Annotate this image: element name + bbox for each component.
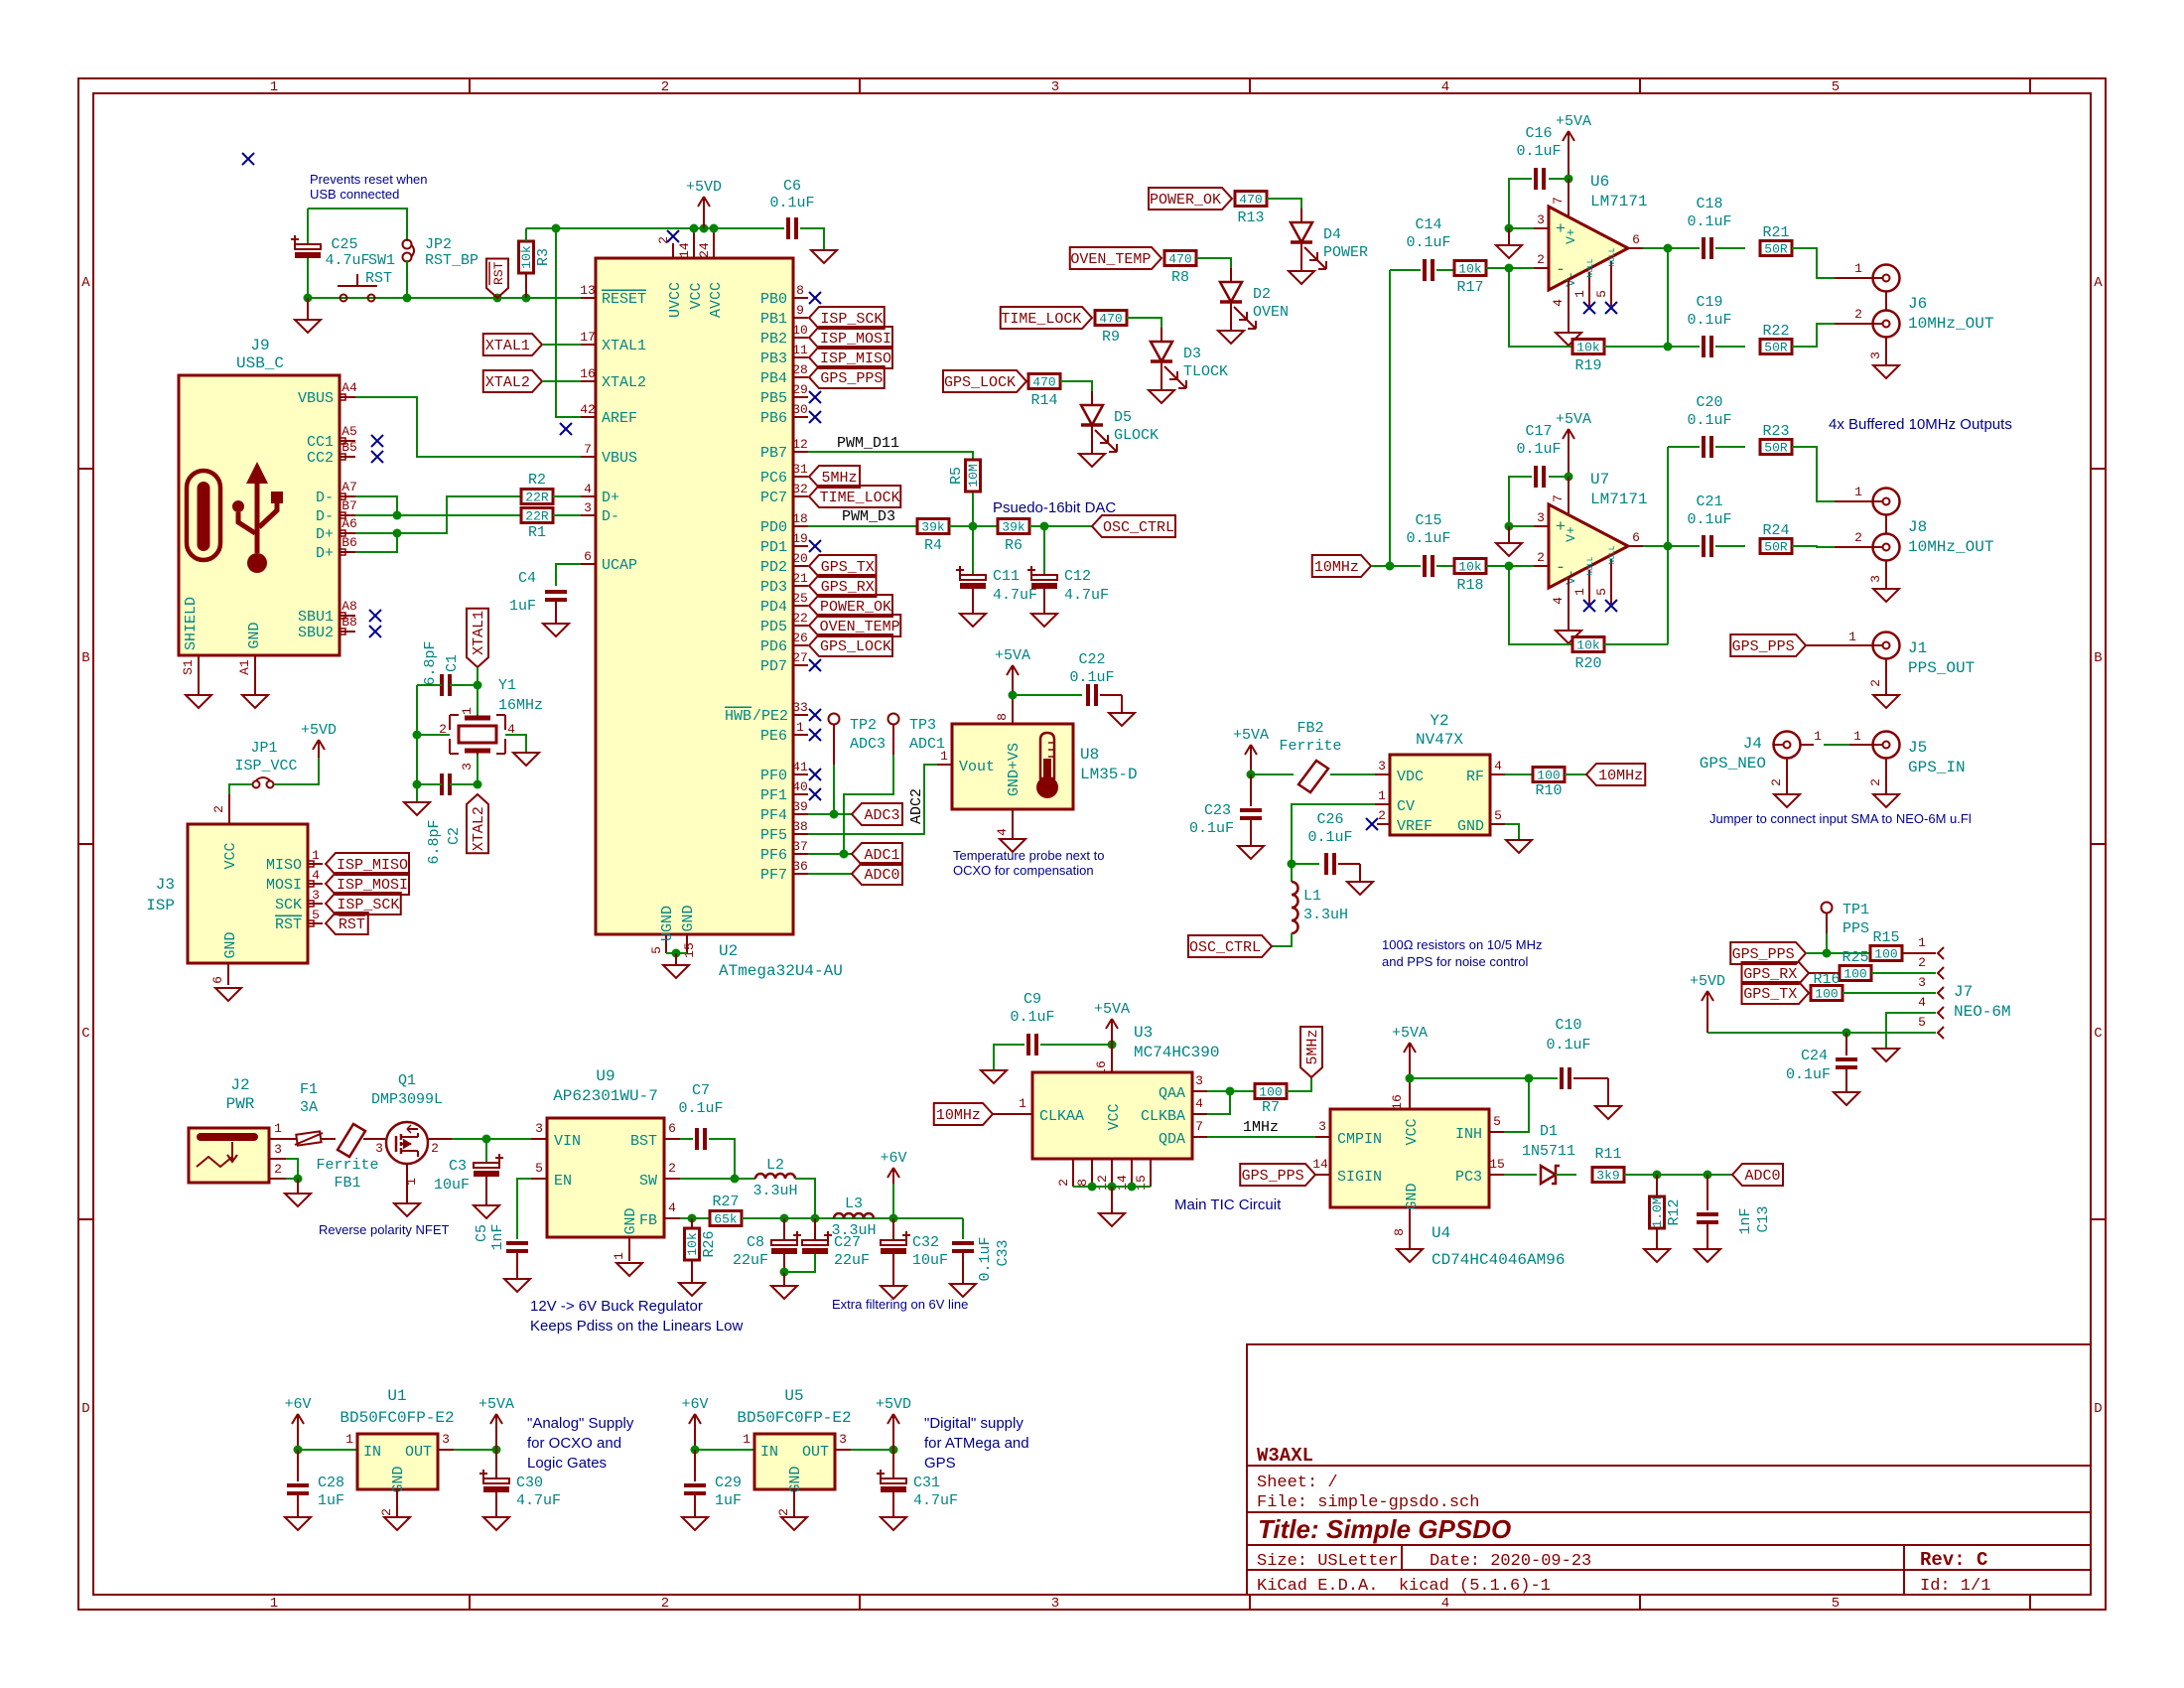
capacitor C4 <box>545 592 567 600</box>
svg-text:4: 4 <box>584 482 592 496</box>
svg-text:10k: 10k <box>519 245 534 269</box>
svg-text:10k: 10k <box>1576 341 1600 355</box>
svg-text:PWR: PWR <box>226 1095 255 1113</box>
global label RST at J3 <box>326 913 368 934</box>
ground at C9 <box>981 1070 1007 1083</box>
svg-text:ISP_VCC: ISP_VCC <box>234 758 297 774</box>
pin 6 UCAP of U2 <box>581 563 596 565</box>
wire C20 to R23 <box>1715 446 1745 448</box>
svg-text:37: 37 <box>792 839 808 854</box>
ground at C24 <box>1834 1092 1859 1105</box>
pin A6 D+ of J9 <box>340 532 355 534</box>
svg-text:EN: EN <box>554 1173 572 1190</box>
svg-text:16: 16 <box>1390 1094 1405 1110</box>
svg-text:Rev: C: Rev: C <box>1920 1549 1987 1571</box>
svg-text:XTAL1: XTAL1 <box>471 611 487 655</box>
svg-text:36: 36 <box>792 859 808 874</box>
svg-text:8: 8 <box>995 713 1010 721</box>
capacitor C10 <box>1562 1067 1570 1089</box>
wire D- B7 to R1 <box>355 514 521 516</box>
svg-text:16MHz: 16MHz <box>498 697 543 714</box>
ground at C8 <box>771 1286 797 1299</box>
svg-text:0.1uF: 0.1uF <box>977 1236 994 1281</box>
pin 38 PF5 of U2 <box>793 833 808 835</box>
wire ADC1 <box>808 853 852 855</box>
pin 30 PB6 of U2 <box>793 416 808 418</box>
pin 2 (-) of U7 <box>1534 565 1549 567</box>
svg-text:ADC3: ADC3 <box>864 807 899 824</box>
svg-text:14: 14 <box>1312 1157 1328 1172</box>
svg-text:R7: R7 <box>1262 1099 1280 1116</box>
global label ADC0 at U4 <box>1732 1164 1783 1186</box>
capacitor C32 10uF <box>892 1218 894 1239</box>
capacitor C1 <box>442 674 450 696</box>
pin 1 Vout of U8 <box>937 764 952 766</box>
junction INH/C10 <box>1525 1074 1534 1083</box>
junction JP2/reset <box>403 294 412 303</box>
svg-text:PB4: PB4 <box>760 370 787 387</box>
ground at C32 <box>881 1286 906 1299</box>
svg-text:A: A <box>2094 275 2103 291</box>
junction pin3 U7 <box>1505 522 1514 531</box>
wire to C20 <box>1668 446 1700 448</box>
wire UCAP to C4 <box>556 564 581 586</box>
svg-text:39k: 39k <box>1002 520 1025 535</box>
svg-text:3: 3 <box>375 1141 383 1156</box>
svg-text:100: 100 <box>1815 987 1838 1002</box>
svg-text:C4: C4 <box>518 570 536 587</box>
svg-text:Title: Simple GPSDO: Title: Simple GPSDO <box>1258 1514 1511 1544</box>
svg-text:PF1: PF1 <box>760 787 787 804</box>
svg-text:Logic Gates: Logic Gates <box>527 1455 607 1472</box>
pin 26 PD6 of U2 <box>793 644 808 646</box>
polarized capacitor C30 <box>483 1478 509 1483</box>
svg-text:R19: R19 <box>1574 357 1601 374</box>
pin 10 PB2 of U2 <box>793 337 808 339</box>
svg-text:SW1: SW1 <box>368 252 395 269</box>
junction C8/C27 gnd <box>780 1268 789 1277</box>
svg-text:8: 8 <box>1392 1228 1407 1236</box>
svg-text:PB6: PB6 <box>760 410 787 427</box>
junction AREF rail <box>552 224 561 233</box>
wire VCC rail <box>694 227 714 229</box>
svg-text:U9: U9 <box>596 1067 614 1085</box>
no-connect on UVCC pin 2 <box>667 230 679 242</box>
wire R25 to pin2 <box>1871 972 1936 974</box>
wire R1 to pin3 <box>553 514 581 516</box>
svg-text:1nF: 1nF <box>1737 1207 1754 1234</box>
resistor R5 <box>966 460 981 492</box>
svg-text:10MHz_OUT: 10MHz_OUT <box>1908 315 1993 333</box>
global label TIME_LOCK at R9 <box>1001 307 1092 329</box>
pin 32 PC7 of U2 <box>793 495 808 497</box>
no-connect on pin 27 <box>809 659 821 671</box>
pin 11 PB3 of U2 <box>793 356 808 358</box>
svg-text:0.1uF: 0.1uF <box>1189 820 1234 837</box>
svg-text:R4: R4 <box>924 537 942 554</box>
svg-text:D+: D+ <box>316 526 334 543</box>
ground at Y1 pin4 <box>513 753 539 766</box>
svg-text:VREF: VREF <box>1397 818 1433 835</box>
wire C14 to R17 <box>1436 269 1454 271</box>
svg-text:CLKAA: CLKAA <box>1039 1108 1084 1125</box>
svg-text:J5: J5 <box>1908 739 1927 757</box>
pin 5 EN of U9 <box>531 1178 547 1180</box>
connector J8 10MHz_OUT <box>1835 500 1872 502</box>
pin 2 VREF of Y2 <box>1377 823 1390 825</box>
svg-text:C16: C16 <box>1525 125 1552 142</box>
junction C24 <box>1843 1029 1851 1038</box>
no-connect SBU2 <box>369 626 381 637</box>
svg-text:C5: C5 <box>474 1224 490 1242</box>
svg-text:25: 25 <box>792 591 808 606</box>
pin 8 of U3 (gnd) <box>1091 1159 1093 1187</box>
wire FB2 to VDC <box>1330 774 1375 775</box>
svg-text:F1: F1 <box>300 1081 318 1098</box>
svg-text:1: 1 <box>1854 485 1862 499</box>
junction J2 ground <box>294 1175 303 1184</box>
junction U7 out <box>1664 542 1673 551</box>
svg-text:2: 2 <box>1537 550 1545 565</box>
op-amp U6 LM7171 <box>1549 207 1628 290</box>
svg-text:OVEN_TEMP: OVEN_TEMP <box>1070 251 1151 268</box>
svg-text:4.7uF: 4.7uF <box>993 587 1037 604</box>
wire EN to C5 <box>517 1179 531 1239</box>
svg-text:65k: 65k <box>714 1212 738 1227</box>
junction C25/reset <box>304 294 313 303</box>
svg-text:GPS_LOCK: GPS_LOCK <box>944 374 1016 391</box>
svg-text:GPS_IN: GPS_IN <box>1908 759 1966 776</box>
svg-text:J3: J3 <box>156 876 175 894</box>
resistor 100 <box>1533 768 1565 782</box>
svg-text:+5VD: +5VD <box>1690 973 1725 990</box>
wire ADC2 <box>808 765 937 834</box>
svg-text:QDA: QDA <box>1159 1131 1185 1148</box>
svg-text:31: 31 <box>792 462 808 477</box>
svg-text:B: B <box>81 650 89 666</box>
wire 1MHz <box>1207 1136 1315 1138</box>
svg-text:33: 33 <box>792 700 808 715</box>
junction fb/out <box>1664 343 1673 352</box>
resistor R26 10k <box>691 1218 693 1228</box>
led D4 POWER <box>1300 209 1302 222</box>
svg-text:3: 3 <box>1537 212 1545 227</box>
junction pin2 U6 <box>1505 264 1514 273</box>
capacitor C30 4.7uF <box>495 1450 497 1477</box>
ground at U7 V- <box>1556 631 1581 643</box>
svg-text:C6: C6 <box>783 178 801 195</box>
resistor R3 <box>519 241 534 273</box>
pin 22 PD5 of U2 <box>793 625 808 627</box>
wire to C14 <box>1390 269 1421 271</box>
wire C15 to R18 <box>1436 565 1454 567</box>
svg-text:C29: C29 <box>715 1475 742 1491</box>
pin 5 (null) of U6 <box>1610 261 1612 306</box>
wire to C12 <box>1043 526 1045 574</box>
svg-text:TP2: TP2 <box>850 717 877 734</box>
junction XTAL2/C2/Y1 <box>474 780 482 789</box>
svg-text:3: 3 <box>1918 975 1926 990</box>
wire to C6 <box>714 227 784 229</box>
svg-text:3: 3 <box>442 1432 450 1447</box>
pin 8 +VS of U8 <box>1012 695 1014 724</box>
ground at C13 <box>1695 1249 1720 1262</box>
svg-text:1: 1 <box>612 1252 626 1260</box>
ground at C12 <box>1031 614 1057 627</box>
global label ADC3 <box>852 803 902 825</box>
svg-text:4: 4 <box>1494 759 1502 774</box>
wire JP1 to +5VD <box>274 758 319 784</box>
svg-text:Y2: Y2 <box>1430 712 1448 730</box>
junction TP1/GPS_PPS <box>1823 949 1832 958</box>
pin 3 of J6 to ground <box>1885 338 1887 365</box>
svg-text:1: 1 <box>1848 630 1856 644</box>
svg-text:UCAP: UCAP <box>602 557 637 574</box>
svg-text:R24: R24 <box>1762 522 1789 539</box>
svg-text:5: 5 <box>535 1161 543 1176</box>
svg-text:10MHz: 10MHz <box>936 1107 981 1124</box>
svg-text:VCC: VCC <box>222 842 239 869</box>
svg-text:+5VA: +5VA <box>1556 113 1591 130</box>
svg-text:PD7: PD7 <box>760 658 787 675</box>
svg-text:8: 8 <box>796 283 804 298</box>
svg-text:22R: 22R <box>525 491 549 505</box>
svg-text:Jumper to connect input SMA to: Jumper to connect input SMA to NEO-6M u.… <box>1709 811 1972 826</box>
ground at crystal <box>404 802 430 815</box>
svg-text:GPS_PPS: GPS_PPS <box>1732 638 1795 655</box>
svg-text:3: 3 <box>584 500 592 515</box>
wire pin4 to gnd <box>1886 1013 1936 1049</box>
svg-text:XTAL2: XTAL2 <box>471 806 487 851</box>
svg-text:U8: U8 <box>1080 746 1099 764</box>
svg-text:A8: A8 <box>341 599 357 614</box>
svg-text:3.3uH: 3.3uH <box>831 1222 876 1239</box>
polarized capacitor C25 <box>295 244 321 249</box>
no-connect CC2 <box>371 451 383 463</box>
polarized capacitor C3 <box>474 1163 499 1168</box>
wire +5VD rail <box>526 227 694 229</box>
svg-text:3: 3 <box>1868 352 1883 359</box>
svg-text:C11: C11 <box>993 568 1020 585</box>
svg-text:C17: C17 <box>1525 423 1552 440</box>
pin A4 VBUS of J9 <box>340 396 355 398</box>
svg-text:GND: GND <box>222 931 239 958</box>
svg-text:C32: C32 <box>912 1234 939 1251</box>
wire R23 to J8 pin1 <box>1792 447 1835 501</box>
svg-text:PPS: PPS <box>1843 920 1869 937</box>
svg-text:10k: 10k <box>1576 638 1600 653</box>
svg-text:NULL: NULL <box>1608 545 1617 564</box>
pin 4 CLKBA of U3 <box>1192 1113 1207 1115</box>
wire TP2 to ADC3 <box>833 765 835 814</box>
svg-text:4.7uF: 4.7uF <box>913 1492 958 1509</box>
junction +5VA U3 <box>1108 1041 1117 1050</box>
svg-text:U2: U2 <box>719 942 738 960</box>
pin 25 PD4 of U2 <box>793 605 808 607</box>
svg-text:C30: C30 <box>516 1475 543 1491</box>
ferrite bead FB1 <box>338 1124 365 1157</box>
svg-text:VCC: VCC <box>1404 1118 1421 1145</box>
svg-text:3.3uH: 3.3uH <box>752 1183 797 1199</box>
svg-text:RST: RST <box>339 916 365 933</box>
svg-text:OUT: OUT <box>405 1444 432 1461</box>
pin A5 CC1 of J9 <box>340 440 355 442</box>
svg-text:TP3: TP3 <box>909 717 936 734</box>
ground at R12 <box>1644 1249 1670 1262</box>
pin 5 UGND of U2 <box>665 934 667 953</box>
wire QAA to R7 <box>1207 1090 1255 1092</box>
svg-text:R6: R6 <box>1005 537 1023 554</box>
svg-text:4: 4 <box>1918 995 1926 1010</box>
wire L2 down <box>795 1179 815 1217</box>
wire R13 to D4 <box>1267 199 1301 209</box>
power +5VA at U3 <box>1106 1019 1118 1045</box>
global label POWER_OK at pin 25 <box>809 595 892 617</box>
svg-text:0.1uF: 0.1uF <box>1516 143 1561 160</box>
capacitor C9 <box>1028 1034 1036 1055</box>
ground at USB shield <box>186 695 211 708</box>
svg-text:1: 1 <box>1572 290 1587 298</box>
svg-text:PB3: PB3 <box>760 351 787 367</box>
resistor R4 <box>917 519 949 534</box>
svg-text:3: 3 <box>1378 759 1386 774</box>
global label ADC1 <box>852 843 902 865</box>
svg-text:2: 2 <box>431 1141 439 1156</box>
svg-text:NULL: NULL <box>1586 556 1595 575</box>
ground at U6 +input <box>1496 245 1522 258</box>
svg-text:6.8pF: 6.8pF <box>426 819 443 864</box>
svg-text:3: 3 <box>1868 575 1883 583</box>
wire +5VA rail U4 <box>1410 1077 1529 1079</box>
pin 27 PD7 of U2 <box>793 664 808 666</box>
pin 16 VCC of U3 <box>1111 1045 1113 1072</box>
ground at J2 <box>285 1194 311 1206</box>
svg-text:J9: J9 <box>250 337 269 354</box>
pin 36 PF7 of U2 <box>793 873 808 875</box>
svg-text:1: 1 <box>1572 588 1587 596</box>
svg-text:for ATMega and: for ATMega and <box>924 1435 1029 1452</box>
pin 4 D+ of U2 <box>581 495 596 497</box>
pin 2 of J5 to ground <box>1885 759 1887 794</box>
svg-text:SBU2: SBU2 <box>298 625 334 641</box>
ground at J8 <box>1873 589 1899 602</box>
svg-text:NULL: NULL <box>1608 247 1617 266</box>
junction U5 input <box>691 1446 700 1455</box>
svg-text:10M: 10M <box>966 464 981 487</box>
pin 5 RST of J3 <box>308 922 323 924</box>
connector J2 PWR body <box>189 1128 269 1183</box>
svg-text:GPS_TX: GPS_TX <box>1743 986 1797 1003</box>
svg-text:GND: GND <box>1404 1183 1421 1209</box>
svg-text:5MHz: 5MHz <box>1304 1029 1321 1064</box>
pin 40 PF1 of U2 <box>793 793 808 795</box>
svg-text:1.0M: 1.0M <box>1650 1196 1665 1227</box>
global label GPS_LOCK at pin 26 <box>809 634 892 656</box>
resistor R9 <box>1095 311 1127 326</box>
svg-text:Reverse polarity NFET: Reverse polarity NFET <box>319 1222 450 1237</box>
svg-text:Vout: Vout <box>959 759 995 775</box>
svg-text:VDC: VDC <box>1397 769 1424 785</box>
no-connect on pin 1 <box>809 729 821 741</box>
ground at C10 <box>1595 1106 1621 1119</box>
capacitor C22 <box>1088 684 1096 706</box>
svg-text:RF: RF <box>1466 769 1484 785</box>
pin 2 GND of U1 <box>396 1489 398 1517</box>
global label ISP_MISO at J3 <box>326 853 409 875</box>
USB icon inside J9 <box>187 471 220 560</box>
capacitor C23 <box>1250 774 1252 806</box>
svg-text:R15: R15 <box>1872 929 1899 946</box>
svg-text:4: 4 <box>1551 597 1566 605</box>
svg-text:10uF: 10uF <box>912 1252 948 1269</box>
pin B7 D- of J9 <box>340 514 355 516</box>
wire to C3 <box>485 1139 487 1162</box>
wire top loop to JP2 <box>308 209 407 241</box>
no-connect on pin 29 <box>809 391 821 403</box>
svg-text:50R: 50R <box>1764 441 1788 456</box>
junction U6 out <box>1664 244 1673 253</box>
capacitor C28 <box>287 1485 309 1493</box>
svg-text:SW: SW <box>639 1173 657 1190</box>
wire C1 left <box>417 684 442 686</box>
pin 14 of U3 (gnd) <box>1131 1159 1133 1187</box>
svg-text:26: 26 <box>792 631 808 645</box>
wire to C33 <box>962 1218 964 1239</box>
wire Q1 to U9 <box>452 1138 531 1140</box>
wire 10MHz to U6 input <box>1389 270 1391 566</box>
svg-text:GND: GND <box>787 1466 804 1492</box>
svg-text:C9: C9 <box>1024 991 1041 1008</box>
ground below U9 <box>616 1263 642 1276</box>
svg-text:24: 24 <box>697 242 712 258</box>
svg-text:LM7171: LM7171 <box>1590 193 1648 211</box>
svg-text:PWM_D3: PWM_D3 <box>842 508 895 525</box>
global label GPS_RX at pin 21 <box>809 575 877 597</box>
svg-text:MISO: MISO <box>266 857 302 874</box>
svg-text:A4: A4 <box>341 380 357 395</box>
svg-text:SBU1: SBU1 <box>298 609 334 626</box>
svg-text:6.8pF: 6.8pF <box>422 640 439 685</box>
pin 1 (null) of U6 <box>1588 272 1590 306</box>
power +5VA at U4 <box>1404 1043 1416 1078</box>
svg-text:GND: GND <box>622 1207 639 1234</box>
junction C13 <box>1704 1171 1712 1180</box>
svg-text:B6: B6 <box>341 535 357 550</box>
power +6V at U5 <box>689 1414 701 1450</box>
no-connect pin5 U7 <box>1605 600 1617 612</box>
svg-text:OVEN: OVEN <box>1253 304 1289 321</box>
pin 2 of J1 to ground <box>1885 659 1887 695</box>
ground below U4 <box>1397 1249 1423 1262</box>
wire R7 to 5MHz <box>1287 1077 1311 1091</box>
svg-text:C18: C18 <box>1696 196 1722 212</box>
svg-text:D2: D2 <box>1253 286 1271 303</box>
pin 2 of J2 <box>269 1178 286 1180</box>
no-connect on pin 33 <box>809 709 821 721</box>
ground at C6 <box>811 250 837 263</box>
global label ADC0 <box>852 863 902 885</box>
wire to C22 <box>1013 694 1082 696</box>
wire R20 to out <box>1604 643 1668 645</box>
svg-text:R27: R27 <box>712 1194 739 1210</box>
svg-text:U3: U3 <box>1134 1024 1153 1042</box>
junction +6V/C32 <box>889 1214 898 1223</box>
ic U8 LM35 body <box>952 724 1073 809</box>
wire fb down U7 <box>1509 566 1572 644</box>
svg-text:PF7: PF7 <box>760 867 787 884</box>
svg-text:L3: L3 <box>845 1196 863 1212</box>
wire +5VD to pin5 <box>1707 1032 1936 1034</box>
